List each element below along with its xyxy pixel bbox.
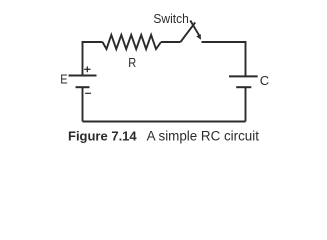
wire: resistor to switch left contact (161, 41, 181, 43)
label R (128, 55, 136, 70)
wire: capacitor down to bottom-right corner (245, 88, 247, 122)
wire: battery positive terminal up to top-left corner and across to resistor (83, 42, 103, 76)
battery E negative plate (short) (76, 86, 90, 88)
svg-text:Figure 7.14: Figure 7.14 (68, 129, 137, 144)
battery E positive plate (long) (69, 75, 97, 77)
svg-text:A simple RC circuit: A simple RC circuit (147, 129, 260, 144)
svg-text:Switch: Switch (153, 12, 188, 26)
capacitor C bottom plate (236, 86, 251, 88)
wire: bottom return (83, 121, 246, 123)
label E (60, 72, 67, 87)
battery - polarity mark (85, 92, 91, 94)
label C (260, 73, 269, 88)
capacitor C top plate (229, 75, 258, 77)
wire: switch right contact to top-right corner and down to capacitor (202, 42, 246, 76)
svg-text:E: E (60, 72, 67, 87)
figure caption (68, 129, 259, 144)
battery + polarity mark (84, 66, 90, 72)
wire: bottom-left corner up to battery negative terminal (82, 88, 84, 122)
svg-text:C: C (260, 73, 269, 88)
resistor R (103, 35, 162, 49)
label Switch (153, 12, 188, 26)
svg-text:R: R (128, 55, 136, 70)
switch blade (open) (181, 22, 196, 42)
switch closing arrow (190, 21, 201, 40)
